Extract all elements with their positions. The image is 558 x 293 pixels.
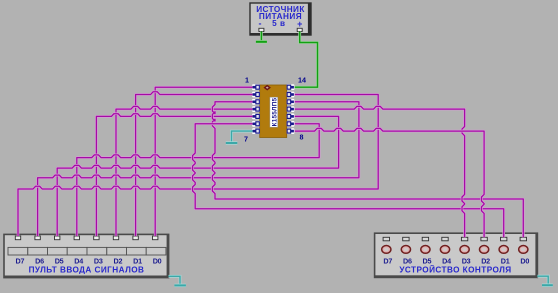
LED indicator D1 xyxy=(499,246,508,254)
svg-text:D5: D5 xyxy=(423,256,432,265)
ground at pin 7 xyxy=(226,141,238,144)
wire pin 11 output to indicator D3 xyxy=(295,106,465,237)
svg-text:D5: D5 xyxy=(55,256,64,265)
chip label window К155ЛП5 xyxy=(270,97,278,127)
svg-text:14: 14 xyxy=(298,76,306,85)
left panel terminal D3 xyxy=(94,236,99,240)
wire pin 6 output to indicator D1 xyxy=(193,124,504,238)
left panel terminal D1 xyxy=(133,236,138,240)
svg-text:D1: D1 xyxy=(501,256,510,265)
wire D4 to pin 9 xyxy=(77,124,319,236)
pin 5 xyxy=(252,114,260,120)
right panel terminal D1 xyxy=(501,237,507,241)
pin 7 xyxy=(252,128,260,134)
left panel terminal D7 xyxy=(15,236,20,240)
pin 1 xyxy=(252,84,260,90)
LED indicator D0 xyxy=(519,246,528,254)
svg-text:D6: D6 xyxy=(35,256,44,265)
pin 8 xyxy=(287,128,295,134)
pin 6 xyxy=(252,121,260,127)
right panel terminal D0 xyxy=(520,237,526,241)
power supply terminal plus xyxy=(297,28,302,31)
LED indicator D5 xyxy=(421,246,430,254)
LED indicator D7 xyxy=(382,246,391,254)
pin 10 xyxy=(287,114,295,120)
svg-text:D7: D7 xyxy=(383,256,392,265)
pin 3 xyxy=(252,99,260,105)
wire control panel to ground xyxy=(537,276,548,285)
svg-text:К155ЛП5: К155ЛП5 xyxy=(271,97,278,126)
pin 11 xyxy=(287,106,295,112)
wire D0 to pin 1 xyxy=(155,87,252,236)
left panel terminal D0 xyxy=(153,236,158,240)
svg-text:D6: D6 xyxy=(403,256,412,265)
svg-text:+: + xyxy=(297,19,302,29)
ground at control panel xyxy=(542,284,553,287)
right panel terminal D7 xyxy=(383,237,389,241)
svg-text:1: 1 xyxy=(245,76,249,85)
svg-text:D7: D7 xyxy=(16,256,25,265)
LED indicator D3 xyxy=(460,246,469,254)
switch row input panel xyxy=(8,247,166,255)
wire minus terminal to ground xyxy=(260,32,263,42)
pin 2 xyxy=(252,92,260,98)
pin 1 orientation diamond mark xyxy=(264,85,271,91)
LED indicator D4 xyxy=(440,246,449,254)
right panel terminal D6 xyxy=(403,237,409,241)
svg-text:D0: D0 xyxy=(520,256,529,265)
pin 14 xyxy=(287,84,295,90)
left panel terminal D6 xyxy=(35,236,40,240)
wire D5 to pin 10 xyxy=(57,116,338,236)
wire D7 to pin 13 xyxy=(18,95,378,237)
wire plus terminal to pin 14 (+5V) xyxy=(295,32,318,88)
svg-text:D3: D3 xyxy=(462,256,471,265)
svg-text:D1: D1 xyxy=(133,256,142,265)
power supply terminal minus xyxy=(259,28,264,31)
wire pin 7 to ground xyxy=(232,131,253,143)
svg-text:D4: D4 xyxy=(442,256,451,265)
power supply box ИСТОЧНИК ПИТАНИЯ xyxy=(250,3,311,35)
wire pin 8 output to indicator D2 xyxy=(295,128,484,237)
pin 4 xyxy=(252,106,260,112)
svg-text:D2: D2 xyxy=(114,256,123,265)
svg-text:5 в: 5 в xyxy=(272,19,285,28)
pin 13 xyxy=(287,92,295,98)
left panel terminal D2 xyxy=(113,236,118,240)
svg-text:-: - xyxy=(259,19,262,29)
input panel ПУЛЬТ ВВОДА СИГНАЛОВ xyxy=(4,234,169,277)
left panel terminal D4 xyxy=(74,236,79,240)
right panel terminal D3 xyxy=(461,237,467,241)
wire D6 to pin 12 xyxy=(38,102,359,236)
svg-text:D2: D2 xyxy=(481,256,490,265)
IC chip K155LP5 U1 body xyxy=(260,85,287,138)
svg-text:7: 7 xyxy=(244,135,248,144)
control panel УСТРОЙСТВО КОНТРОЛЯ xyxy=(375,233,538,277)
svg-text:УСТРОЙСТВО КОНТРОЛЯ: УСТРОЙСТВО КОНТРОЛЯ xyxy=(399,264,511,275)
wire D2 to pin 4 xyxy=(116,106,253,236)
wire pin 3 output to indicator D0 xyxy=(212,102,523,238)
wire input panel to ground xyxy=(169,276,181,285)
pin 12 xyxy=(287,99,295,105)
svg-text:D0: D0 xyxy=(153,256,162,265)
pin 9 xyxy=(287,121,295,127)
wire D3 to pin 5 xyxy=(96,114,252,236)
right panel terminal D5 xyxy=(422,237,428,241)
LED indicator D2 xyxy=(480,246,489,254)
wire D1 to pin 2 xyxy=(136,92,253,236)
right panel terminal D2 xyxy=(481,237,487,241)
ground at input panel xyxy=(174,284,186,287)
right panel terminal D4 xyxy=(442,237,448,241)
LED indicator D6 xyxy=(401,246,410,254)
svg-text:D3: D3 xyxy=(94,256,103,265)
ground under power supply xyxy=(256,40,267,43)
svg-text:8: 8 xyxy=(300,133,304,142)
left panel terminal D5 xyxy=(55,236,60,240)
svg-text:D4: D4 xyxy=(74,256,83,265)
svg-text:ПУЛЬТ ВВОДА СИГНАЛОВ: ПУЛЬТ ВВОДА СИГНАЛОВ xyxy=(29,266,145,275)
